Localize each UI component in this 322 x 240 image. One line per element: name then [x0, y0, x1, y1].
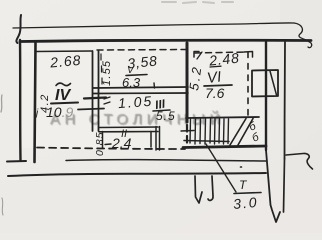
svg-text:10.9: 10.9 [46, 104, 73, 120]
partition right of room II line a [155, 127, 157, 151]
room VI right dashed [247, 52, 249, 116]
svg-text:АН СТОЛИЧНЫЙ: АН СТОЛИЧНЫЙ [51, 111, 226, 129]
right wall outer continuation (torn end) [284, 159, 285, 212]
svg-text:5.5: 5.5 [156, 109, 176, 123]
top break line [13, 23, 294, 28]
staircase treads [190, 119, 229, 144]
svg-text:0.85: 0.85 [94, 132, 106, 156]
underline 2 of 2.48 [210, 65, 221, 68]
wall stub right prong (torn) [208, 176, 213, 200]
top break line right S-curve end [294, 23, 312, 48]
fraction bar room V [126, 75, 147, 76]
wall: left inner [35, 43, 36, 162]
wall: building top (thick) [20, 40, 311, 41]
staircase bottom line [184, 141, 229, 142]
room IV top line [36, 50, 92, 53]
room VI top-right corner tick [244, 52, 253, 58]
svg-text:1.55: 1.55 [101, 60, 113, 86]
svg-text:2.68: 2.68 [48, 52, 82, 71]
street line right arm with squiggle [286, 153, 313, 169]
fraction bar room VI [204, 85, 232, 86]
room II left side [102, 132, 104, 149]
dash before 2.4 [105, 143, 111, 146]
wall: right outer [284, 42, 287, 159]
partition III/II upper [99, 126, 158, 129]
partition V/III upper line [93, 87, 188, 88]
watermark text [50, 110, 226, 129]
wall between hall and staircase [186, 43, 189, 122]
wall: left outer [19, 40, 22, 160]
stove diagonal [270, 71, 277, 95]
fraction bar stair T [234, 193, 261, 194]
svg-text:7.6: 7.6 [205, 85, 225, 101]
dot near street [241, 166, 242, 168]
underline III [153, 110, 170, 111]
slash tail above 5.2 [197, 52, 202, 59]
room V top dashed line [97, 49, 186, 52]
partition IV/V line a [92, 51, 94, 131]
street line upper [66, 160, 267, 161]
door jog tick room V [153, 83, 156, 88]
svg-text:2.48: 2.48 [207, 50, 240, 69]
wall stub below street (torn) [195, 176, 202, 203]
room VI top-left corner tick [194, 52, 199, 58]
wall dashed continuation [186, 125, 188, 147]
svg-text:IV: IV [55, 87, 71, 104]
wall: right inner [265, 42, 268, 150]
faint edge marks [1, 95, 3, 215]
svg-text:2.4: 2.4 [111, 135, 132, 151]
room II right side [150, 132, 152, 148]
staircase diagonal 1 [230, 119, 246, 146]
door tick in partition IV [84, 98, 106, 99]
small swing mark hall III [104, 97, 110, 104]
svg-text:6.3: 6.3 [122, 75, 141, 90]
wall: bottom right solid [183, 146, 266, 148]
right wall continuation below street (torn end) [266, 150, 280, 222]
room VI top dashed [195, 52, 247, 53]
door tick 2 in partition IV [78, 109, 104, 110]
partition right of room II line b [159, 127, 161, 151]
dim leader dashes near 1.55 [101, 54, 102, 84]
leader line to stair label [206, 144, 236, 192]
top break line left squiggle [16, 15, 21, 43]
street line lower [8, 173, 266, 176]
svg-text:1.05: 1.05 [117, 93, 153, 111]
partition IV/V line b [98, 51, 100, 131]
fraction bar room IV [51, 103, 78, 104]
staircase top line [186, 117, 259, 118]
partition III/II lower [99, 131, 158, 133]
wall: left outer foot [7, 160, 26, 163]
tilde over IV [56, 83, 71, 85]
wall: bottom left dashed [37, 148, 185, 150]
stove rectangle [252, 70, 278, 97]
svg-text:3.0: 3.0 [232, 194, 259, 212]
staircase diagonal 2 [238, 119, 253, 146]
tick on dashed wall [181, 130, 194, 133]
partition V/III lower line [93, 92, 188, 95]
